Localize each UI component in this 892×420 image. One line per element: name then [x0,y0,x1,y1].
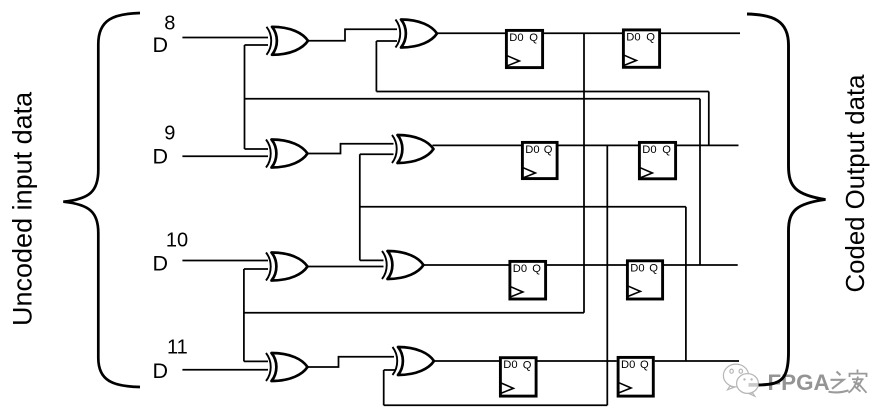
wire D8 input [182,37,268,39]
wire net N4 left vertical [243,269,245,361]
wire FF2 row3 to output [664,264,738,266]
right brace [747,14,826,385]
svg-text:Uncoded input data: Uncoded input data [8,91,38,326]
wire U1 to U2 jog [308,29,397,41]
flip-flop FF2 row2 [639,142,675,178]
XOR gate U5 (row3 first) [266,253,308,281]
wire net N1 horizontal [245,98,701,100]
svg-text:Q: Q [529,32,538,44]
wire net N3 stub to U6 [360,259,384,261]
svg-text:Q: Q [544,144,553,156]
wire net N2 riser from row2 output [708,92,710,146]
wire net N5 horizontal [384,404,608,406]
XOR gate U8 (row4 second) [393,347,435,375]
wire net N4 tap from row1 [583,33,585,313]
wire U3 to U4 jog [308,144,394,154]
flip-flop FF2 row4 [618,357,653,396]
wire U8 output to FF1 row4 [433,360,500,362]
svg-text:Q: Q [662,144,671,156]
wire D9 input [182,155,268,157]
flip-flop FF1 row1 [506,30,542,67]
XOR gate U2 (row1 second) [396,20,438,48]
svg-text:Coded Output data: Coded Output data [842,74,870,293]
label D10 [153,229,189,275]
wire net N4 horizontal [244,312,584,314]
svg-text:D0: D0 [513,263,527,275]
svg-text:D0: D0 [630,262,644,274]
wire FF1 to FF2 row2 [559,144,639,146]
wire FF2 row4 to output [655,360,739,362]
wire net N4 stub to U7 [244,360,268,362]
svg-text:D: D [153,359,169,383]
left brace [63,13,140,387]
wire net N3 left vertical [359,154,361,260]
wire net N5 tap from row2 [606,145,608,405]
flip-flop FF1 row4 [500,358,536,396]
watermark text jia (mark) [849,370,867,393]
wire net N2 left vertical [375,41,377,92]
wire net N3 horizontal [360,206,686,208]
wire U6 output to FF1 row3 [423,264,510,266]
svg-text:Q: Q [640,359,649,371]
XOR gate U4 (row2 second) [392,135,434,163]
wire net N3 riser from row4 output [685,207,687,361]
wire FF2 row1 to output [661,32,740,34]
flip-flop FF1 row3 [510,261,546,299]
XOR gate U6 (row3 second) [382,251,424,279]
svg-text:D0: D0 [626,31,640,43]
label D9 [153,122,176,168]
wire net N5 riser to U8 [383,370,385,405]
wire net N5 stub to U8 [384,369,396,371]
svg-text:8: 8 [164,13,175,35]
XOR gate U7 (row4 first) [266,353,308,381]
wire net N3 stub to U4 [360,153,394,155]
svg-text:D0: D0 [642,144,656,156]
XOR gate U3 (row2 first) [266,140,308,168]
svg-text:Q: Q [523,359,532,371]
svg-text:11: 11 [167,337,188,359]
wire net N4 stub to U5 [244,268,268,270]
wire FF1 to FF2 row3 [547,264,626,266]
XOR gate U1 (row1 first) [267,27,309,55]
wire net N1 left vertical [244,45,246,149]
wire net N1 riser from row3 output [699,99,701,265]
wire net N2 horizontal [376,91,708,93]
svg-text:D0: D0 [621,359,635,371]
watermark logo chat bubbles [723,364,758,396]
svg-text:D: D [153,33,169,57]
wire FF1 to FF2 row4 [538,360,617,362]
watermark gray dash [749,383,759,387]
wire U5 to U6 straight [308,266,384,268]
wire D10 input [182,260,268,262]
wire net N2 stub to U2 [376,40,397,42]
svg-text:D0: D0 [525,144,539,156]
label D11 [153,337,188,384]
svg-text:D0: D0 [509,32,523,44]
label D8 [153,13,176,58]
svg-text:Q: Q [532,263,541,275]
svg-text:D0: D0 [503,359,517,371]
wire U7 to U8 jog [308,357,394,367]
flip-flop FF1 row2 [522,142,557,178]
svg-text:D: D [153,145,169,169]
wire net N1 stub to U3 [245,148,269,150]
svg-text:Q: Q [649,263,658,275]
flip-flop FF2 row1 [623,30,659,67]
flip-flop FF2 row3 [627,261,662,299]
wire net N1 stub to U1 [245,44,269,46]
wire U4 output to FF1 row2 [433,144,523,146]
wire FF2 row2 to output [677,144,739,146]
wire U2 output to FF1 row1 [436,32,506,34]
svg-text:D: D [153,252,169,276]
watermark text zhi [829,372,849,393]
svg-text:10: 10 [166,229,188,251]
wire D11 input [182,369,268,371]
svg-text:Q: Q [646,32,655,44]
svg-text:9: 9 [164,122,175,144]
wire FF1 to FF2 row1 [544,32,622,34]
